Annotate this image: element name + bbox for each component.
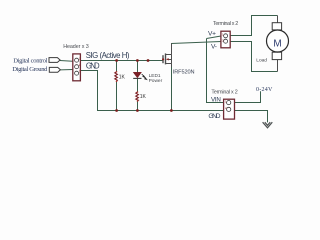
- svg-text:VIN: VIN: [211, 97, 221, 104]
- svg-text:1K: 1K: [119, 74, 126, 80]
- svg-text:Terminal x 2: Terminal x 2: [211, 89, 237, 95]
- svg-text:V-: V-: [211, 43, 217, 50]
- svg-text:GND: GND: [208, 113, 220, 120]
- svg-text:Digital Ground: Digital Ground: [12, 66, 48, 73]
- svg-text:SIG (Active H): SIG (Active H): [86, 51, 130, 60]
- svg-text:M: M: [273, 39, 281, 50]
- svg-text:Digital control: Digital control: [13, 58, 47, 65]
- svg-text:Load: Load: [256, 58, 267, 64]
- svg-text:IRF520N: IRF520N: [173, 69, 195, 75]
- svg-text:0-24V: 0-24V: [256, 87, 273, 93]
- svg-text:Terminal x 2: Terminal x 2: [213, 21, 238, 27]
- svg-text:Power: Power: [149, 78, 163, 84]
- svg-text:Header x 3: Header x 3: [63, 44, 88, 50]
- svg-text:V+: V+: [208, 30, 216, 37]
- svg-text:1K: 1K: [140, 94, 147, 100]
- svg-text:GND: GND: [86, 62, 100, 71]
